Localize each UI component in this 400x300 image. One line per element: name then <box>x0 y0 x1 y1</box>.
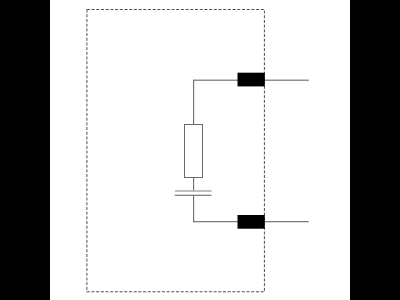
component boundary dashed frame <box>87 9 265 291</box>
pin P2 (bottom terminal pad) <box>238 215 265 229</box>
wire: resistor bottom lead to capacitor <box>193 178 195 192</box>
capacitor C1 top plate <box>175 190 212 192</box>
wire: bottom horizontal to pin P2 and out <box>193 221 309 223</box>
pin P1 (top terminal pad) <box>238 73 265 87</box>
wire: vertical from top wire down to resistor <box>193 80 195 125</box>
capacitor C1 bottom plate <box>175 194 212 196</box>
wire: capacitor bottom lead down <box>193 195 195 222</box>
wire: top horizontal from node A to pin P1 and out <box>193 79 309 81</box>
resistor R1 body <box>185 125 203 178</box>
